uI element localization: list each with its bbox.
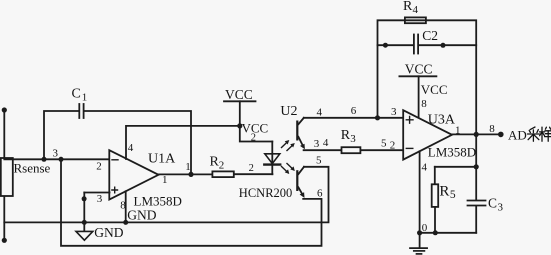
wire R3 to U3A minus [360,149,402,151]
power VCC symbol left [224,87,256,126]
wire pin 8 to rail [125,191,127,222]
svg-text:2: 2 [249,163,254,174]
capacitor C3 [468,167,504,233]
svg-text:1: 1 [162,174,168,186]
wire output down to RC filter [475,134,477,166]
svg-text:8: 8 [421,98,427,110]
node junction feedback plus [375,115,380,120]
svg-text:5: 5 [381,138,387,150]
svg-text:2: 2 [390,139,396,151]
resistor R2 [210,154,234,177]
wire U3A output [452,133,501,135]
svg-text:VCC: VCC [405,62,433,77]
node junction rail pin3 [82,220,87,225]
svg-text:U2: U2 [280,104,297,119]
svg-text:3: 3 [498,202,504,214]
svg-text:HCNR200: HCNR200 [239,186,292,200]
svg-text:3: 3 [97,193,103,205]
svg-text:VCC: VCC [225,87,253,102]
svg-text:GND: GND [127,208,156,223]
resistor R3 [341,128,361,153]
node junction R5C3 output [474,164,479,169]
node junction output C1 [188,172,193,177]
capacitor C1 [72,87,88,118]
phototransistor top of U2 [296,118,305,150]
svg-text:4: 4 [323,137,329,149]
wire pin 3 to ground [83,193,85,232]
label AD caiyang output [508,127,551,142]
wire opto pin3 to R3 [304,149,342,151]
wire C1 left branch [44,111,79,159]
node junction C1 tap [42,157,47,162]
resistor R4 [403,0,426,23]
svg-text:4: 4 [317,106,323,118]
wire U1A output [158,173,212,175]
wire pin 4 to ground [419,151,421,233]
wire LED cathode to R2 [234,173,273,175]
wire R5 C3 top [435,166,476,168]
LED of U2 [264,142,280,175]
wire C1 right to output [84,111,191,174]
light arrows lower [282,164,295,175]
node junction output feedback [474,132,479,137]
wire R4 top feedback [378,20,477,134]
resistor R5 [432,167,456,233]
ground symbol GND left [76,225,124,240]
node junction feedback tap [59,157,64,162]
wire left vertical input [3,110,5,240]
svg-text:6: 6 [351,105,357,117]
node junction C2 right [441,43,446,48]
svg-text:5: 5 [450,189,456,201]
svg-text:1: 1 [185,161,191,173]
svg-text:R: R [403,0,413,14]
light arrows upper [282,140,295,151]
svg-text:LM358D: LM358D [428,145,476,160]
wire feedback return node3 to photodiode [61,159,322,246]
wire bottom gnd segment [420,232,477,234]
node junction R5 bottom [433,230,438,235]
node IN+ terminal top [2,107,7,112]
svg-text:VCC: VCC [421,82,448,97]
svg-text:4: 4 [422,162,428,174]
phototransistor bottom of U2 [296,167,304,198]
op-amp U3A [403,110,452,159]
svg-text:5: 5 [316,154,322,166]
svg-text:GND: GND [94,225,123,240]
svg-text:Rsense: Rsense [14,161,51,176]
svg-text:C2: C2 [422,28,438,43]
svg-text:U3A: U3A [428,112,456,127]
node terminal AD [498,132,504,138]
svg-text:R: R [341,128,351,143]
wire VCC to LED anode [240,126,272,142]
wire pin 4 VCC supply [126,126,240,159]
svg-text:4: 4 [413,4,419,16]
svg-text:3: 3 [350,133,356,145]
svg-text:3: 3 [391,106,397,118]
node IN- terminal bottom [2,238,7,243]
svg-text:C: C [72,87,81,102]
svg-text:AD: AD [508,127,527,142]
node junction C2 left [383,43,388,48]
power VCC symbol right [399,62,436,119]
svg-text:U1A: U1A [148,152,176,167]
capacitor C2 [378,28,477,54]
svg-text:6: 6 [317,187,323,199]
node junction pin4 gnd [417,230,422,235]
svg-text:R: R [439,183,449,199]
node junction VCC [237,123,242,128]
svg-text:3: 3 [314,138,320,150]
node junction pin3 [82,196,87,201]
svg-text:2: 2 [96,161,102,173]
svg-text:C: C [488,195,497,210]
op-amp U1A [109,150,158,199]
svg-text:4: 4 [128,142,134,154]
svg-text:2: 2 [219,159,225,171]
svg-text:3: 3 [53,148,59,160]
svg-text:LM358D: LM358D [134,194,182,209]
ground symbol earth right [410,233,427,254]
svg-text:8: 8 [489,123,495,135]
svg-text:1: 1 [82,91,88,103]
resistor Rsense [1,158,51,196]
wire pin 3 input [84,192,109,194]
wire ground rail [4,167,328,223]
wire opto pin4 to U3A plus [304,117,403,119]
node junction rail pin8 [123,220,128,225]
wire node 3 horizontal [4,158,109,160]
